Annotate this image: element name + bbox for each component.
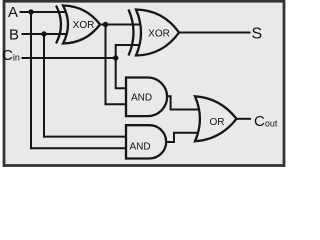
wire B branch down to AND2 upper input xyxy=(44,34,127,137)
xor gate U1 (A xor B) xyxy=(56,6,100,44)
svg-text:OR: OR xyxy=(210,117,225,128)
and gate U3 ((A xor B) and Cin) xyxy=(126,78,167,117)
node Cin junction xyxy=(113,55,118,60)
svg-text:XOR: XOR xyxy=(73,20,95,31)
svg-text:XOR: XOR xyxy=(148,28,170,39)
svg-text:AND: AND xyxy=(131,92,152,103)
node XOR1 output junction xyxy=(103,22,108,27)
svg-text:B: B xyxy=(9,27,19,44)
wire A branch down to AND2 lower input xyxy=(31,12,127,148)
wire Cin branch up to XOR2 lower input xyxy=(116,45,142,58)
wire A horizontal xyxy=(20,11,68,13)
wire OR output to Cout xyxy=(237,118,251,120)
and gate U4 (A and B) xyxy=(126,125,166,158)
xor gate U2 (sum = (A xor B) xor Cin) xyxy=(129,10,180,56)
wire XOR2 output to S xyxy=(179,32,251,34)
node A junction xyxy=(28,9,33,14)
svg-text:AND: AND xyxy=(129,141,150,152)
svg-text:A: A xyxy=(8,4,18,21)
wire AND2 output to OR lower input xyxy=(166,133,203,142)
wire XOR1 output to XOR2 upper input xyxy=(100,24,142,26)
wire AND1 output to OR upper input xyxy=(167,96,203,109)
svg-text:S: S xyxy=(252,26,263,43)
wire Cin branch down to AND1 upper input xyxy=(116,58,127,88)
wire Cin horizontal xyxy=(22,57,116,59)
or gate U5 (carry out) xyxy=(195,96,237,141)
node B junction xyxy=(41,31,46,36)
wire XOR1 output branch down to AND1 lower input xyxy=(106,25,127,105)
wire B horizontal xyxy=(22,33,68,35)
